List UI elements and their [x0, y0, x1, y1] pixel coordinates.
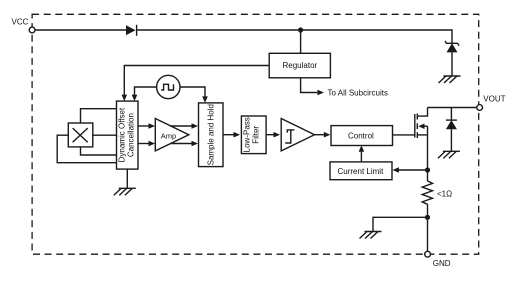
wire: source sense to Current Limit — [398, 169, 428, 171]
wire: clock to Dynamic Offset Cancellation — [135, 87, 157, 96]
svg-text:Sample and Hold: Sample and Hold — [207, 104, 216, 165]
wire: Current Limit to Control — [360, 151, 362, 162]
wire: amp to Sample and Hold (upper) — [170, 125, 193, 127]
wire: Control to DMOS gate — [393, 134, 415, 136]
svg-text:<1Ω: <1Ω — [437, 190, 452, 199]
svg-text:VOUT: VOUT — [483, 94, 505, 103]
wire: DMOS source down to sense resistor — [427, 126, 429, 181]
regulator U1 — [269, 53, 330, 78]
wire: clock to Sample and Hold — [180, 87, 205, 97]
wire: Low-Pass Filter to schmitt trigger — [266, 134, 274, 136]
svg-text:GND: GND — [433, 259, 451, 268]
svg-text:To All Subcircuits: To All Subcircuits — [328, 88, 388, 97]
junction: regulator tap — [298, 27, 303, 32]
svg-text:Low-Pass: Low-Pass — [243, 117, 252, 152]
wire: DOC ground stub — [126, 169, 128, 188]
wire: DOC to amp (lower) — [138, 143, 150, 145]
wire: branch to internal ground — [373, 217, 428, 231]
wire: Sample and Hold to Low-Pass Filter — [223, 134, 235, 136]
ground (under output clamp diode) — [438, 151, 460, 158]
Low-Pass Filter block — [241, 116, 266, 154]
svg-text:Regulator: Regulator — [283, 61, 318, 70]
zener Z1 (supply clamp) — [445, 41, 459, 76]
Dynamic Offset Cancellation block — [117, 101, 139, 169]
Control block — [331, 126, 393, 146]
op-amp (Amp) — [155, 119, 189, 151]
VCC terminal — [12, 18, 36, 33]
wire: VCC rail (diode cathode to right corner, down to zener) — [137, 30, 452, 42]
svg-text:Cancellation: Cancellation — [127, 113, 136, 157]
wire: Hall left terminal to DOC — [57, 135, 116, 163]
wire: resistor to GND terminal — [427, 204, 429, 251]
svg-text:VCC: VCC — [12, 18, 29, 27]
wire: Hall top terminal to DOC — [81, 109, 117, 124]
diode D1 (supply protection) — [126, 25, 137, 36]
junction: ground branch — [425, 215, 430, 220]
Current Limit block — [330, 162, 392, 180]
ground (under DOC) — [114, 188, 136, 195]
wire: Hall bottom terminal to DOC — [81, 147, 117, 155]
wire: Hall right terminal to DOC — [92, 134, 116, 136]
resistor R1 (sense) — [422, 181, 452, 204]
wire: schmitt trigger to Control — [315, 134, 325, 136]
ground (under supply zener) — [439, 76, 461, 83]
wire: rail to regulator input — [300, 30, 302, 53]
wire: DOC to amp (upper) — [138, 125, 150, 127]
svg-text:Dynamic Offset: Dynamic Offset — [117, 107, 126, 162]
ground (internal, lower) — [360, 232, 382, 239]
diode D2 (output clamp) — [446, 108, 457, 152]
GND terminal — [425, 251, 451, 268]
wire: amp to Sample and Hold (lower) — [170, 143, 193, 145]
wire: VCC rail (terminal to diode anode) — [35, 29, 126, 31]
VOUT terminal — [477, 94, 506, 110]
wire: VOUT net (terminal to DMOS drain) — [428, 107, 477, 109]
junction: current limit tap — [425, 167, 430, 172]
wire: regulator output to Dynamic Offset Cancellation (chopper clock rail) — [124, 66, 269, 96]
svg-text:Amp: Amp — [161, 132, 176, 141]
wire: regulator to all subcircuits — [301, 78, 388, 98]
Hall element X1 — [68, 123, 93, 147]
schmitt trigger U2 — [281, 119, 314, 151]
transistor Q1 (DMOS output) — [415, 108, 428, 139]
Sample and Hold block — [199, 103, 224, 167]
svg-text:Current Limit: Current Limit — [338, 167, 385, 176]
svg-text:Control: Control — [348, 131, 374, 140]
svg-text:Filter: Filter — [252, 126, 261, 144]
package boundary (dashed) — [32, 14, 479, 254]
clock oscillator — [157, 75, 180, 98]
